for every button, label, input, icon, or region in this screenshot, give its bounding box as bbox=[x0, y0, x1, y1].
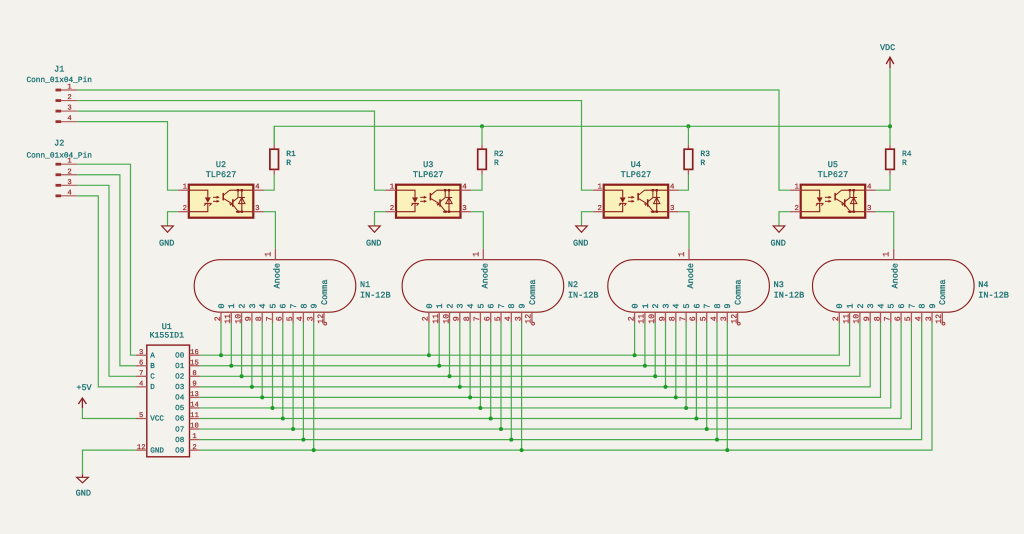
svg-text:O9: O9 bbox=[175, 446, 185, 455]
optocoupler U4 bbox=[593, 160, 679, 218]
svg-text:TLP627: TLP627 bbox=[818, 170, 849, 180]
N2 pin 8 (digit 4) bbox=[463, 303, 476, 322]
U1 value K155ID1 bbox=[150, 332, 184, 341]
junction N1 digit4/O4 bbox=[260, 395, 264, 399]
svg-text:2: 2 bbox=[794, 205, 798, 213]
J1 reference label bbox=[54, 64, 64, 74]
svg-text:R4: R4 bbox=[902, 150, 912, 159]
svg-text:GND: GND bbox=[150, 446, 164, 455]
wire N2 digit3 drop bbox=[459, 323, 461, 387]
svg-text:U4: U4 bbox=[631, 160, 641, 170]
wire N2 digit4 drop bbox=[469, 323, 471, 398]
svg-text:3: 3 bbox=[248, 303, 258, 308]
U3 body bbox=[396, 185, 461, 218]
svg-text:A: A bbox=[150, 352, 155, 360]
junction N2 digit4/O4 bbox=[468, 395, 472, 399]
U4 darlington transistors bbox=[638, 190, 668, 213]
svg-text:5: 5 bbox=[700, 316, 709, 321]
U4 pin 4 bbox=[668, 184, 679, 192]
svg-text:2: 2 bbox=[238, 303, 248, 308]
svg-text:5: 5 bbox=[887, 303, 897, 308]
svg-text:6: 6 bbox=[276, 316, 285, 321]
svg-text:2: 2 bbox=[390, 205, 394, 213]
wire N1 digit5 drop bbox=[272, 323, 274, 408]
N3 pin 11 (digit 1) bbox=[638, 303, 651, 323]
wire N3 digit4 drop bbox=[675, 323, 677, 398]
wire J1 pin2 to U4 pin1 bbox=[77, 101, 593, 191]
nixie tube N3 bbox=[608, 249, 804, 325]
svg-text:12: 12 bbox=[137, 444, 146, 452]
junction N1 digit2/O2 bbox=[240, 374, 244, 378]
wire net O0 from U1 to N4 bbox=[200, 323, 840, 356]
svg-text:8: 8 bbox=[507, 303, 517, 308]
wire N1 digit2 drop bbox=[241, 323, 243, 377]
svg-text:8: 8 bbox=[918, 303, 928, 308]
svg-text:U5: U5 bbox=[828, 160, 838, 170]
ground symbol GND under U1 bbox=[76, 474, 91, 498]
wire R3 to U4 pin4 bbox=[679, 175, 689, 191]
junction N3 digit1/O1 bbox=[643, 364, 647, 368]
svg-text:3: 3 bbox=[456, 303, 466, 308]
svg-text:6: 6 bbox=[894, 316, 903, 321]
R3 body bbox=[684, 145, 693, 175]
U2 pin 2 bbox=[178, 205, 189, 213]
junction N2 digit5/O5 bbox=[478, 406, 482, 410]
svg-text:1: 1 bbox=[435, 303, 445, 308]
N2 pin 11 (digit 1) bbox=[432, 303, 445, 323]
svg-text:R1: R1 bbox=[286, 150, 296, 159]
svg-text:R2: R2 bbox=[494, 150, 504, 159]
wire J1 pin1 to U5 pin1 bbox=[77, 90, 790, 190]
J2 pin 1 bbox=[56, 158, 78, 166]
svg-text:VDC: VDC bbox=[880, 43, 895, 53]
N1 pin name Anode bbox=[272, 263, 282, 289]
wire VDC to R4 bbox=[889, 68, 891, 145]
U1 pin 10 (O7) bbox=[175, 423, 200, 435]
N4 pin 7 (digit 5) bbox=[884, 303, 897, 322]
svg-text:8: 8 bbox=[299, 303, 309, 308]
svg-text:R: R bbox=[286, 159, 291, 168]
U1 pin 16 (O0) bbox=[175, 349, 200, 361]
N1 pin 5 (digit 7) bbox=[286, 303, 299, 322]
wire N2 digit9 drop bbox=[521, 323, 523, 451]
wire net O2 from U1 to N4 bbox=[200, 323, 860, 377]
N2 pin 6 (digit 6) bbox=[484, 303, 497, 322]
svg-text:3: 3 bbox=[67, 105, 71, 113]
ground symbol GND under U4 bbox=[573, 226, 588, 249]
U4 reference label bbox=[631, 160, 641, 170]
svg-text:D: D bbox=[150, 384, 155, 392]
junction N2 digit9/O9 bbox=[520, 448, 524, 452]
svg-text:5: 5 bbox=[494, 316, 503, 321]
svg-text:2: 2 bbox=[627, 316, 636, 321]
N4 pin 12 (Comma) bbox=[935, 279, 948, 325]
N1 pin 8 (digit 4) bbox=[255, 303, 268, 322]
wire rail to R1 bbox=[273, 126, 275, 145]
junction N3 digit9/O9 bbox=[725, 448, 729, 452]
svg-text:N2: N2 bbox=[568, 280, 578, 290]
wire U3 pin2 to ground bbox=[375, 212, 386, 226]
N4 anode pin 1 bbox=[882, 249, 894, 260]
wire U5 pin3 to N4 anode bbox=[876, 212, 894, 249]
wire N3 digit5 drop bbox=[685, 323, 687, 408]
svg-text:0: 0 bbox=[835, 303, 845, 308]
U1 pin 11 (O6) bbox=[175, 412, 200, 424]
svg-text:8: 8 bbox=[873, 316, 882, 321]
svg-text:11: 11 bbox=[432, 314, 441, 324]
svg-text:1: 1 bbox=[597, 184, 602, 192]
N2 body bbox=[402, 260, 564, 313]
R3 value R bbox=[700, 159, 705, 168]
N2 pin 4 (digit 8) bbox=[504, 303, 517, 322]
wire N3 digit8 drop bbox=[716, 323, 718, 440]
svg-text:U2: U2 bbox=[216, 160, 226, 170]
wire N2 digit1 drop bbox=[438, 323, 440, 366]
svg-text:5: 5 bbox=[139, 412, 143, 420]
R1 value R bbox=[286, 159, 291, 168]
svg-text:Anode: Anode bbox=[480, 263, 490, 289]
svg-text:Anode: Anode bbox=[891, 263, 901, 289]
wire U3 pin3 to N2 anode bbox=[471, 212, 483, 249]
N2 anode pin 1 bbox=[471, 249, 483, 260]
svg-text:4: 4 bbox=[462, 184, 467, 192]
J2 pin 2 bbox=[56, 168, 78, 176]
wire U4 pin2 to ground bbox=[582, 212, 594, 226]
U5 darlington transistors bbox=[835, 190, 865, 213]
svg-text:0: 0 bbox=[425, 303, 435, 308]
svg-text:O2: O2 bbox=[175, 373, 185, 382]
wire N1 digit1 drop bbox=[230, 323, 232, 366]
svg-text:R: R bbox=[494, 159, 499, 168]
J1 pin 4 bbox=[56, 115, 78, 123]
svg-text:7: 7 bbox=[703, 303, 713, 308]
N2 value IN-12B bbox=[568, 291, 599, 301]
wire N1 digit8 drop bbox=[302, 323, 304, 440]
J1 value Conn_01x04_Pin bbox=[26, 76, 92, 85]
svg-text:8: 8 bbox=[463, 316, 472, 321]
svg-text:Comma: Comma bbox=[734, 279, 744, 305]
svg-text:8: 8 bbox=[192, 370, 196, 378]
U1 pin 2 (O9) bbox=[175, 444, 200, 456]
U3 reference label bbox=[423, 160, 433, 170]
wire N3 digit9 drop bbox=[726, 323, 728, 451]
svg-text:R: R bbox=[902, 159, 907, 168]
svg-text:N3: N3 bbox=[774, 280, 784, 290]
U2 value TLP627 bbox=[206, 170, 237, 180]
U4 output diode bbox=[652, 189, 660, 213]
svg-text:Anode: Anode bbox=[272, 263, 282, 289]
junction N1 digit1/O1 bbox=[229, 364, 233, 368]
junction N1 digit8/O8 bbox=[301, 438, 305, 442]
svg-text:9: 9 bbox=[658, 316, 667, 321]
wire N3 digit2 drop bbox=[654, 323, 656, 377]
svg-text:O5: O5 bbox=[175, 404, 185, 413]
U3 pin 3 bbox=[461, 205, 472, 213]
svg-text:4: 4 bbox=[466, 303, 476, 308]
svg-text:Comma: Comma bbox=[320, 279, 330, 305]
N3 pin name Anode bbox=[686, 263, 696, 289]
svg-text:3: 3 bbox=[925, 316, 934, 321]
svg-text:1: 1 bbox=[794, 184, 799, 192]
svg-text:9: 9 bbox=[518, 303, 528, 308]
N3 pin 6 (digit 6) bbox=[689, 303, 702, 322]
U1 pin 13 (O4) bbox=[175, 391, 200, 403]
svg-text:N4: N4 bbox=[978, 280, 988, 290]
svg-text:2: 2 bbox=[445, 303, 455, 308]
N2 pin 5 (digit 7) bbox=[494, 303, 507, 322]
N1 pin 4 (digit 8) bbox=[296, 303, 309, 322]
svg-text:TLP627: TLP627 bbox=[621, 170, 652, 180]
ground symbol GND under U2 bbox=[159, 226, 174, 249]
R4 value R bbox=[902, 159, 907, 168]
svg-text:IN-12B: IN-12B bbox=[568, 291, 599, 301]
wire N3 digit6 drop bbox=[695, 323, 697, 419]
svg-text:11: 11 bbox=[190, 412, 199, 420]
svg-text:2: 2 bbox=[597, 205, 601, 213]
U3 light arrows bbox=[420, 196, 427, 203]
svg-text:IN-12B: IN-12B bbox=[360, 291, 391, 301]
nixie tube N2 bbox=[402, 249, 598, 325]
U2 reference label bbox=[216, 160, 226, 170]
U3 darlington transistors bbox=[430, 190, 460, 213]
svg-text:4: 4 bbox=[867, 184, 872, 192]
N2 pin 2 (digit 0) bbox=[422, 303, 435, 322]
wire net O1 from U1 to N4 bbox=[200, 323, 850, 366]
R2 body bbox=[478, 145, 487, 175]
wire N2 digit7 drop bbox=[500, 323, 502, 430]
U3 LED bbox=[396, 190, 419, 212]
junction N1 digit9/O9 bbox=[312, 448, 316, 452]
J2 pin 3 bbox=[56, 179, 78, 187]
junction N2 digit3/O3 bbox=[458, 385, 462, 389]
svg-text:3: 3 bbox=[139, 349, 143, 357]
U5 pin 2 bbox=[790, 205, 801, 213]
N1 pin 12 (Comma) bbox=[317, 279, 330, 325]
svg-text:R3: R3 bbox=[700, 150, 710, 159]
svg-text:2: 2 bbox=[422, 316, 431, 321]
U3 value TLP627 bbox=[413, 170, 444, 180]
svg-text:3: 3 bbox=[255, 205, 259, 213]
power symbol +5V bbox=[76, 383, 92, 409]
U1 pin 6 (B) bbox=[136, 359, 155, 371]
J2 pin 4 bbox=[56, 189, 78, 197]
U3 pin 1 bbox=[385, 184, 396, 192]
svg-text:4: 4 bbox=[67, 115, 71, 123]
svg-text:4: 4 bbox=[296, 316, 305, 321]
svg-text:1: 1 bbox=[192, 433, 196, 441]
svg-text:3: 3 bbox=[866, 303, 876, 308]
wire N2 digit5 drop bbox=[479, 323, 481, 408]
svg-text:7: 7 bbox=[473, 316, 482, 321]
svg-text:8: 8 bbox=[713, 303, 723, 308]
wire N2 digit0 drop bbox=[428, 323, 430, 356]
svg-text:11: 11 bbox=[224, 314, 233, 324]
svg-text:4: 4 bbox=[139, 380, 143, 388]
N4 pin 2 (digit 0) bbox=[832, 303, 845, 322]
svg-text:Conn_01x04_Pin: Conn_01x04_Pin bbox=[26, 151, 92, 160]
svg-text:0: 0 bbox=[217, 303, 227, 308]
N2 pin 3 (digit 9) bbox=[514, 303, 527, 322]
N4 pin 6 (digit 6) bbox=[894, 303, 907, 322]
svg-text:6: 6 bbox=[897, 303, 907, 308]
svg-text:5: 5 bbox=[904, 316, 913, 321]
U3 output diode bbox=[444, 189, 452, 213]
svg-text:C: C bbox=[150, 373, 155, 382]
svg-text:6: 6 bbox=[279, 303, 289, 308]
svg-text:1: 1 bbox=[882, 252, 892, 257]
svg-text:5: 5 bbox=[476, 303, 486, 308]
J1 pin 1 bbox=[56, 84, 78, 92]
svg-text:GND: GND bbox=[771, 239, 786, 249]
junction N2 digit2/O2 bbox=[448, 374, 452, 378]
svg-text:O6: O6 bbox=[175, 415, 185, 424]
N1 pin 6 (digit 6) bbox=[276, 303, 289, 322]
svg-text:4: 4 bbox=[672, 303, 682, 308]
U2 light arrows bbox=[213, 196, 220, 203]
wire net O4 from U1 to N4 bbox=[200, 323, 881, 398]
svg-text:2: 2 bbox=[856, 303, 866, 308]
U5 light arrows bbox=[825, 196, 832, 203]
svg-text:9: 9 bbox=[192, 380, 196, 388]
svg-text:3: 3 bbox=[67, 179, 71, 187]
svg-text:7: 7 bbox=[497, 303, 507, 308]
wire U1 GND to ground bbox=[83, 450, 136, 474]
U5 reference label bbox=[828, 160, 838, 170]
junction N3 digit4/O4 bbox=[674, 395, 678, 399]
N4 pin 11 (digit 1) bbox=[842, 303, 855, 323]
R1 reference label bbox=[286, 150, 296, 159]
svg-text:3: 3 bbox=[661, 303, 671, 308]
svg-text:6: 6 bbox=[692, 303, 702, 308]
U4 pin 3 bbox=[668, 205, 679, 213]
svg-text:1: 1 bbox=[846, 303, 856, 308]
N4 body bbox=[813, 260, 975, 313]
N4 pin name Anode bbox=[891, 263, 901, 289]
svg-text:7: 7 bbox=[265, 316, 274, 321]
wire J2 pin4 to U1 D bbox=[77, 196, 136, 387]
N4 pin 10 (digit 2) bbox=[853, 303, 866, 323]
U4 pin 1 bbox=[593, 184, 604, 192]
junction N2 digit6/O6 bbox=[489, 417, 493, 421]
R4 reference label bbox=[902, 150, 912, 159]
connector J1 bbox=[26, 64, 92, 123]
wire U2 pin2 to ground bbox=[168, 212, 179, 226]
svg-text:1: 1 bbox=[390, 184, 395, 192]
junction N3 digit3/O3 bbox=[664, 385, 668, 389]
svg-text:J2: J2 bbox=[54, 139, 64, 149]
U4 pin 2 bbox=[593, 205, 604, 213]
junction N1 digit3/O3 bbox=[250, 385, 254, 389]
svg-text:1: 1 bbox=[183, 184, 188, 192]
N3 pin 2 (digit 0) bbox=[627, 303, 640, 322]
svg-text:8: 8 bbox=[669, 316, 678, 321]
svg-text:8: 8 bbox=[255, 316, 264, 321]
N3 pin 12 (Comma) bbox=[730, 279, 743, 325]
svg-text:4: 4 bbox=[670, 184, 675, 192]
svg-text:1: 1 bbox=[263, 252, 273, 257]
wire +5V to U1 VCC bbox=[82, 408, 135, 418]
svg-text:O0: O0 bbox=[175, 351, 185, 360]
wire U4 pin3 to N3 anode bbox=[679, 212, 689, 249]
svg-text:GND: GND bbox=[159, 239, 174, 249]
svg-text:1: 1 bbox=[641, 303, 651, 308]
optocoupler U5 bbox=[790, 160, 876, 218]
svg-text:2: 2 bbox=[192, 444, 196, 452]
ground symbol GND under U3 bbox=[366, 226, 381, 249]
N3 pin 4 (digit 8) bbox=[710, 303, 723, 322]
svg-text:5: 5 bbox=[682, 303, 692, 308]
svg-text:13: 13 bbox=[190, 391, 199, 399]
svg-text:6: 6 bbox=[487, 303, 497, 308]
U1 reference label bbox=[162, 322, 172, 332]
junction N3 digit2/O2 bbox=[653, 374, 657, 378]
N2 pin 7 (digit 5) bbox=[473, 303, 486, 322]
svg-text:2: 2 bbox=[67, 94, 71, 102]
nixie tube N4 bbox=[813, 249, 1009, 325]
svg-text:4: 4 bbox=[67, 189, 71, 197]
svg-text:3: 3 bbox=[307, 316, 316, 321]
U4 body bbox=[604, 185, 669, 218]
svg-text:5: 5 bbox=[286, 316, 295, 321]
U2 darlington transistors bbox=[223, 190, 253, 213]
svg-text:4: 4 bbox=[710, 316, 719, 321]
svg-text:3: 3 bbox=[720, 316, 729, 321]
U1 pin 14 (O5) bbox=[175, 402, 200, 414]
svg-text:2: 2 bbox=[832, 316, 841, 321]
svg-text:6: 6 bbox=[689, 316, 698, 321]
svg-text:Conn_01x04_Pin: Conn_01x04_Pin bbox=[26, 76, 92, 85]
svg-text:7: 7 bbox=[884, 316, 893, 321]
junction N3 digit8/O8 bbox=[715, 438, 719, 442]
J2 reference label bbox=[54, 139, 64, 149]
junction N1 digit6/O6 bbox=[281, 417, 285, 421]
svg-text:9: 9 bbox=[245, 316, 254, 321]
svg-text:14: 14 bbox=[190, 402, 199, 410]
wire R1 to U2 pin4 bbox=[264, 175, 274, 191]
svg-text:O7: O7 bbox=[175, 425, 184, 434]
svg-text:J1: J1 bbox=[54, 64, 64, 74]
N3 pin 10 (digit 2) bbox=[648, 303, 661, 323]
junction N2 digit0/O0 bbox=[427, 353, 431, 357]
N1 pin 2 (digit 0) bbox=[214, 303, 227, 322]
N1 pin 7 (digit 5) bbox=[265, 303, 278, 322]
connector J2 bbox=[26, 139, 92, 198]
svg-text:10: 10 bbox=[234, 314, 243, 324]
wire J2 pin1 to U1 A bbox=[77, 164, 136, 355]
U1 pin 5 (VCC) bbox=[136, 412, 165, 424]
svg-text:3: 3 bbox=[462, 205, 466, 213]
wire N1 digit4 drop bbox=[261, 323, 263, 398]
U1 pin 15 (O1) bbox=[175, 359, 200, 371]
wire N2 digit2 drop bbox=[449, 323, 451, 377]
N1 value IN-12B bbox=[360, 291, 391, 301]
svg-text:3: 3 bbox=[514, 316, 523, 321]
svg-text:4: 4 bbox=[876, 303, 886, 308]
wire N1 digit3 drop bbox=[251, 323, 253, 387]
U1 pin 4 (D) bbox=[136, 380, 155, 392]
junction N1 digit0/O0 bbox=[219, 353, 223, 357]
wire N2 digit6 drop bbox=[490, 323, 492, 419]
svg-text:IN-12B: IN-12B bbox=[774, 291, 805, 301]
svg-text:GND: GND bbox=[76, 489, 91, 499]
nixie tube N1 bbox=[194, 249, 390, 325]
resistor R2 bbox=[478, 126, 504, 174]
wire J2 pin3 to U1 C bbox=[77, 185, 136, 376]
svg-text:10: 10 bbox=[190, 423, 199, 431]
N1 pin 9 (digit 3) bbox=[245, 303, 258, 322]
N4 reference label bbox=[978, 280, 988, 290]
resistor R3 bbox=[684, 126, 710, 174]
